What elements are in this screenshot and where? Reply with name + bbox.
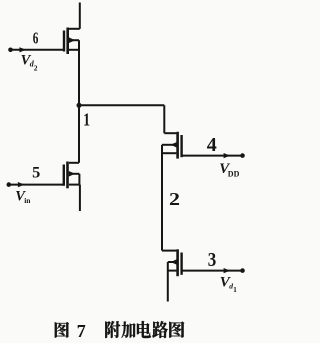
- svg-text:1: 1: [233, 286, 237, 294]
- svg-text:6: 6: [33, 29, 39, 48]
- svg-text:5: 5: [32, 162, 40, 181]
- svg-text:7: 7: [77, 321, 86, 341]
- svg-text:2: 2: [169, 190, 180, 210]
- svg-text:in: in: [24, 196, 31, 205]
- svg-text:3: 3: [208, 249, 217, 272]
- svg-text:DD: DD: [228, 169, 240, 178]
- svg-text:1: 1: [83, 111, 90, 130]
- svg-text:4: 4: [207, 134, 217, 156]
- svg-text:2: 2: [34, 63, 38, 72]
